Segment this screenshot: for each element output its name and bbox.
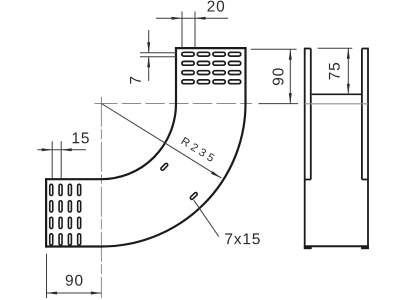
side view: back edge line xyxy=(305,103,368,105)
radius leader R235 arrow xyxy=(211,171,221,178)
side view: left wall rail xyxy=(304,49,311,249)
leader line 7x15 xyxy=(194,200,219,236)
dimension 7: arrows xyxy=(147,42,150,67)
label 15 xyxy=(73,133,89,144)
dimension 75: dimension line xyxy=(347,48,349,94)
tray plan outline: left end edge xyxy=(45,178,47,248)
centerline vertical xyxy=(100,97,102,298)
dimension 90 top right: arrows xyxy=(289,49,292,103)
dimension 90 top right: dimension line xyxy=(289,49,291,103)
left end perforation slots (4 cols x 4 rows, vertical) xyxy=(50,184,81,245)
dimension 90 bottom: dimension line xyxy=(47,292,102,294)
dimension 20: arrows xyxy=(172,17,206,20)
side view: left foot xyxy=(304,246,312,249)
side view: flange depth line xyxy=(312,93,361,95)
dimension 90 bottom: arrows xyxy=(47,292,102,295)
centerline horizontal xyxy=(95,103,99,105)
label 7 xyxy=(130,77,141,84)
label R235 xyxy=(181,137,215,162)
curved-section slot B (7x15) xyxy=(190,192,198,200)
curved-section slot A (7x15) xyxy=(160,163,168,171)
dimension 7: extension lines xyxy=(140,53,177,57)
tray plan outline: outer contour xyxy=(46,48,245,246)
dimension 75: extension line xyxy=(318,47,353,49)
label 75 xyxy=(329,63,340,80)
dimension 20: extension lines xyxy=(182,12,195,48)
dimension 15: extension lines xyxy=(52,141,61,178)
side view: right wall rail xyxy=(362,49,369,249)
dimension 90 bottom: extension line xyxy=(46,254,48,298)
side view: bottom edge xyxy=(304,245,369,247)
label 7x15 xyxy=(225,233,260,244)
dimension 90 top right: extension lines xyxy=(251,49,298,103)
label 20 xyxy=(207,1,224,12)
label 90 bottom xyxy=(66,275,83,286)
radius leader R235 line xyxy=(101,104,221,179)
tray plan outline: inner contour xyxy=(46,48,176,179)
dimension 15: arrows xyxy=(42,148,72,151)
dimension 20: dimension line xyxy=(156,17,228,19)
tray plan outline: top end edge xyxy=(175,47,247,49)
top end perforation slots (4 cols x 4 rows, horizontal) xyxy=(182,52,241,83)
side view: right foot xyxy=(361,246,369,249)
dimension 75: arrows xyxy=(347,48,350,94)
dimension 7: dimension line xyxy=(148,30,150,81)
label 90 right xyxy=(273,68,284,85)
dimension 15: dimension line xyxy=(38,149,87,151)
